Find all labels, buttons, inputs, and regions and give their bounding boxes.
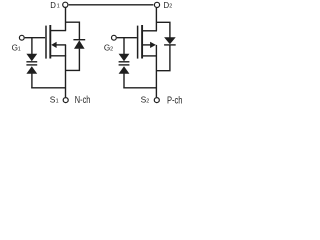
svg-text:2: 2	[169, 4, 172, 10]
svg-text:D: D	[50, 1, 56, 10]
svg-text:P-ch: P-ch	[167, 95, 183, 106]
svg-text:2: 2	[146, 99, 149, 105]
svg-text:1: 1	[18, 46, 21, 52]
svg-text:2: 2	[110, 46, 113, 52]
svg-text:N-ch: N-ch	[75, 95, 91, 106]
svg-text:1: 1	[56, 99, 59, 105]
svg-text:1: 1	[57, 4, 60, 10]
